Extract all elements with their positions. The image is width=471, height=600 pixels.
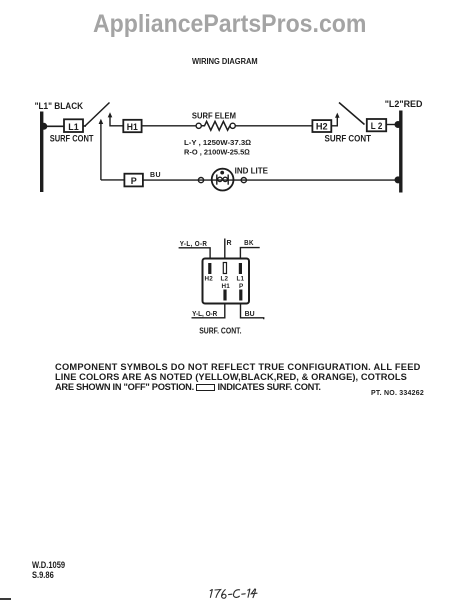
svg-text:H1: H1	[127, 122, 138, 132]
switch: right SURF CONT blade (open)	[339, 103, 365, 125]
svg-text:L1: L1	[68, 122, 79, 132]
resistor SURF ELEM zigzag	[201, 121, 230, 130]
note paragraph line 1	[55, 362, 421, 372]
svg-text:Y-L, O-R: Y-L, O-R	[180, 241, 208, 248]
pin H1 (filled bar)	[223, 290, 226, 301]
svg-text:L 2: L 2	[371, 121, 383, 131]
pin P (filled bar)	[239, 290, 242, 301]
wire: BK lead into L1 pin	[240, 248, 259, 259]
svg-text:SURF CONT: SURF CONT	[50, 134, 94, 144]
wire: pilot branch horizontal to P box	[101, 179, 125, 181]
lamp IND LITE (neon indicator)	[212, 169, 234, 191]
watermark AppliancePartsPros.com	[93, 10, 366, 39]
schematic svg	[0, 0, 471, 355]
terminal box L2	[367, 119, 386, 131]
svg-text:P: P	[131, 176, 137, 186]
wire: Y-L/O-R lead into H2 pin	[179, 248, 211, 259]
feed line L1	[40, 112, 43, 193]
contact arrow: pilot tap (from lamp branch)	[100, 121, 102, 181]
svg-text:BK: BK	[244, 240, 254, 247]
resistor SURF ELEM: right terminal circle	[230, 123, 235, 128]
svg-text:R: R	[227, 240, 232, 247]
contact arrow: H1 fixed contact	[110, 115, 123, 126]
pin H2 (filled bar)	[208, 263, 211, 274]
wire: H1 pin lead out bottom	[192, 304, 225, 318]
node: L2 feed junction	[395, 121, 402, 128]
contact arrow: H2 fixed contact (right switch)	[331, 115, 337, 126]
feed line L2	[399, 111, 402, 193]
svg-text:P: P	[239, 283, 243, 290]
svg-text:H2: H2	[205, 276, 214, 283]
label PT. NO. 334262	[371, 390, 424, 397]
terminal box H1	[123, 120, 141, 132]
wire: L1 feed to terminal box L1	[43, 125, 64, 127]
svg-text:SURF ELEM: SURF ELEM	[192, 111, 236, 121]
svg-text:IND LITE: IND LITE	[235, 165, 269, 175]
node: L1 feed junction	[40, 123, 47, 130]
svg-text:SURF CONT: SURF CONT	[325, 134, 372, 144]
note paragraph line 3	[55, 382, 321, 392]
svg-text:H2: H2	[316, 121, 328, 131]
wire: L2 box to feed line L2	[386, 124, 399, 126]
svg-text:R-O , 2100W-25.5Ω: R-O , 2100W-25.5Ω	[184, 148, 250, 157]
note paragraph line 2	[55, 372, 407, 382]
terminal box H2	[312, 120, 331, 132]
title WIRING DIAGRAM	[192, 56, 258, 66]
svg-text:"L1" BLACK: "L1" BLACK	[35, 101, 84, 111]
label W.D.1059	[32, 560, 65, 570]
pin L1 (filled bar)	[239, 263, 242, 274]
terminal circle left of lamp	[198, 178, 203, 183]
node: pilot/L2 feed junction	[395, 176, 402, 183]
wire: P pin lead out bottom	[241, 304, 264, 320]
svg-text:BU: BU	[245, 311, 255, 318]
resistor SURF ELEM: left terminal circle	[196, 123, 201, 128]
wire: box L1 to switch pivot	[83, 125, 86, 127]
svg-text:Y-L, O-R: Y-L, O-R	[192, 311, 217, 318]
svg-text:L1: L1	[237, 276, 245, 283]
terminal box P	[124, 174, 142, 187]
svg-text:"L2"RED: "L2"RED	[385, 99, 423, 109]
svg-text:BU: BU	[150, 172, 161, 179]
switch: left SURF CONT blade (open)	[85, 103, 110, 127]
connector block SURF. CONT. outline	[203, 259, 250, 304]
wire: element to H2	[235, 125, 312, 127]
handwritten 176-C-14	[0, 560, 469, 600]
label S.9.86	[32, 570, 54, 580]
wire: R lead into L2 pin	[224, 239, 226, 259]
terminal box L1	[64, 119, 83, 132]
bottom-left dash	[0, 598, 11, 600]
svg-text:L-Y , 1250W-37.3Ω: L-Y , 1250W-37.3Ω	[184, 138, 251, 147]
terminal circle right of lamp	[241, 178, 246, 183]
wire: pilot circuit P box to L2 feed (passes through lamp)	[143, 179, 396, 181]
svg-text:SURF. CONT.: SURF. CONT.	[199, 325, 241, 335]
wire: H1 to surface element	[142, 125, 197, 127]
svg-text:H1: H1	[222, 283, 231, 290]
svg-text:L2: L2	[221, 276, 229, 283]
pin L2 (hollow bar)	[223, 263, 226, 274]
